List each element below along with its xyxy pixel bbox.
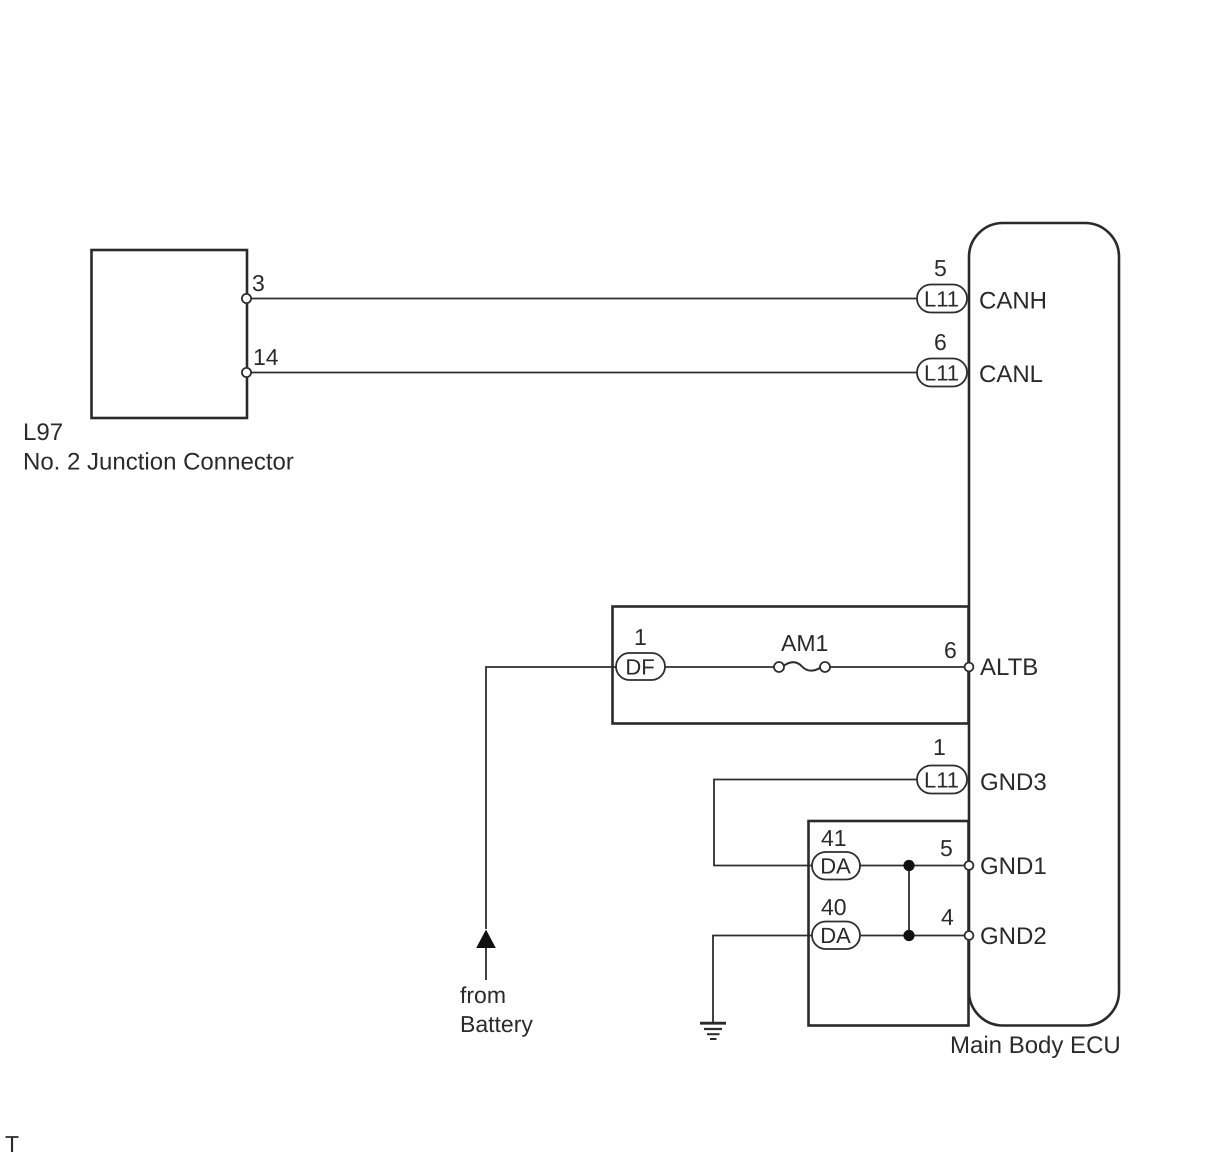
- svg-text:5: 5: [940, 835, 953, 861]
- svg-text:L11: L11: [924, 361, 959, 386]
- svg-text:5: 5: [934, 255, 947, 281]
- svg-text:GND1: GND1: [980, 853, 1047, 880]
- svg-text:6: 6: [934, 329, 947, 355]
- svg-text:1: 1: [933, 734, 946, 760]
- svg-text:3: 3: [252, 270, 265, 296]
- svg-text:from: from: [460, 982, 506, 1008]
- svg-text:L97: L97: [23, 419, 63, 446]
- svg-text:14: 14: [253, 344, 279, 370]
- svg-text:AM1: AM1: [781, 630, 828, 656]
- svg-text:CANL: CANL: [979, 361, 1043, 388]
- svg-text:41: 41: [821, 825, 847, 851]
- svg-text:DA: DA: [820, 923, 851, 948]
- svg-text:GND3: GND3: [980, 769, 1047, 796]
- svg-text:4: 4: [941, 904, 954, 930]
- svg-text:Battery: Battery: [460, 1011, 533, 1037]
- svg-text:6: 6: [944, 637, 957, 663]
- svg-text:L11: L11: [924, 287, 959, 312]
- svg-text:40: 40: [821, 894, 847, 920]
- svg-text:GND2: GND2: [980, 923, 1047, 950]
- svg-text:ALTB: ALTB: [980, 654, 1038, 681]
- svg-text:CANH: CANH: [979, 288, 1047, 315]
- svg-text:T: T: [5, 1131, 19, 1156]
- svg-text:L11: L11: [924, 768, 959, 793]
- svg-text:Main Body ECU: Main Body ECU: [950, 1032, 1121, 1059]
- svg-text:1: 1: [634, 624, 647, 650]
- svg-text:DA: DA: [820, 854, 851, 879]
- svg-text:No. 2 Junction Connector: No. 2 Junction Connector: [23, 449, 294, 476]
- svg-text:DF: DF: [625, 655, 654, 680]
